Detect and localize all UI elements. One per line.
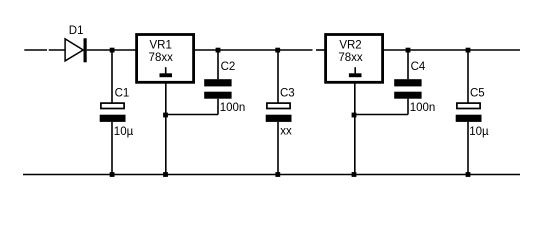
- wire C4 return to VR2 ground pin: [354, 114, 408, 116]
- svg-text:xx: xx: [280, 125, 292, 137]
- wire top rail VR2 output to right end: [384, 49, 520, 51]
- wire top rail segment before VR2 input: [316, 49, 325, 51]
- node junction VR2 ground on bottom rail: [352, 172, 357, 177]
- wire top rail VR1 output to VR2: [195, 49, 313, 51]
- node junction VR1 ground on bottom rail: [163, 172, 168, 177]
- diode D1: [65, 38, 87, 62]
- svg-text:78xx: 78xx: [338, 52, 363, 64]
- node junction C2 tap on top rail: [216, 48, 221, 53]
- node junction C5 on bottom rail: [466, 172, 471, 177]
- svg-text:D1: D1: [69, 25, 84, 37]
- node junction C4 tap on top rail: [406, 48, 411, 53]
- wire top rail segment to diode anode: [49, 49, 66, 51]
- ground symbol inside VR2: [349, 67, 362, 77]
- capacitor C3: [266, 50, 292, 175]
- node junction VR2 ground pin / C4 return: [352, 113, 357, 118]
- wire C2 return to VR1 ground pin: [166, 114, 219, 116]
- wire VR2 ground pin to bottom rail: [354, 84, 356, 175]
- capacitor C4: [394, 50, 421, 115]
- svg-text:78xx: 78xx: [149, 52, 174, 64]
- svg-text:VR2: VR2: [339, 39, 361, 51]
- node junction VR1 ground pin / C2 return: [163, 113, 168, 118]
- svg-text:10µ: 10µ: [114, 126, 134, 138]
- svg-text:10µ: 10µ: [469, 126, 489, 138]
- svg-text:C5: C5: [470, 88, 485, 100]
- wire top rail diode to VR1 input: [87, 49, 136, 51]
- capacitor C2: [204, 50, 231, 115]
- regulator VR2 box: [326, 35, 383, 83]
- node junction C1 on bottom rail: [110, 172, 115, 177]
- node junction C3 tap on top rail: [275, 48, 280, 53]
- regulator VR1 box: [137, 35, 194, 83]
- wire VR1 ground pin to bottom rail: [165, 84, 167, 175]
- wire top rail input segment: [24, 49, 47, 51]
- ground symbol inside VR1: [160, 67, 173, 77]
- svg-text:VR1: VR1: [150, 39, 172, 51]
- svg-text:100n: 100n: [410, 102, 436, 114]
- capacitor C1: [100, 50, 126, 175]
- wire bottom rail: [23, 174, 520, 176]
- node junction C1 tap on top rail: [110, 48, 115, 53]
- node junction C5 tap on top rail: [466, 48, 471, 53]
- svg-text:C1: C1: [115, 88, 130, 100]
- node junction C3 on bottom rail: [275, 172, 280, 177]
- svg-text:C4: C4: [411, 61, 426, 73]
- svg-text:C2: C2: [221, 61, 236, 73]
- svg-text:100n: 100n: [220, 102, 246, 114]
- svg-text:C3: C3: [280, 88, 295, 100]
- capacitor C5: [456, 50, 482, 175]
